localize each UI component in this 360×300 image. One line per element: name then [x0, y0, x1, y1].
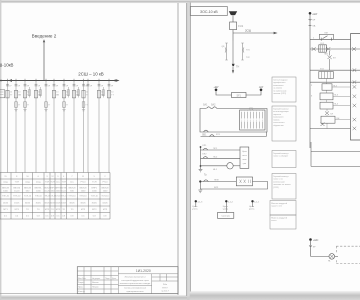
svg-text:ТО: ТО [62, 209, 65, 211]
svg-text:1: 1 [241, 111, 242, 113]
bottom paper edge right sheet [190, 291, 360, 300]
svg-text:электрооборудование цеха: электрооборудование цеха [121, 280, 149, 282]
bottom paper edge left sheet [0, 295, 187, 300]
svg-text:РП-4: РП-4 [103, 182, 109, 184]
feeder bay F10 [87, 79, 93, 173]
svg-text:Изм Лист: Изм Лист [78, 278, 86, 280]
svg-text:вгнал: вгнал [271, 220, 277, 222]
svg-text:ТО: ТО [71, 209, 74, 211]
svg-text:однофазного: однофазного [273, 81, 286, 84]
insulation monitor box [236, 177, 252, 186]
description box D5 [270, 201, 296, 216]
svg-text:МТЗ: МТЗ [92, 209, 97, 211]
svg-text:сигнального: сигнального [273, 122, 285, 124]
svg-text:10-20: 10-20 [44, 190, 50, 192]
fuse FU1 [230, 22, 244, 30]
svg-text:МТЗ: МТЗ [56, 209, 61, 211]
svg-text:FU1: FU1 [238, 24, 243, 28]
svg-text:лин.: лин. [56, 182, 61, 184]
svg-text:ВВЭ-М: ВВЭ-М [69, 188, 76, 190]
svg-text:10: 10 [10, 91, 12, 93]
rung 5 wire [310, 123, 351, 129]
relay box K3 [311, 93, 351, 100]
svg-text:SA1: SA1 [203, 104, 208, 107]
zone label box ЗОС-10 [190, 7, 227, 16]
rung 2 relay КL1 [310, 43, 360, 56]
svg-text:5: 5 [253, 120, 254, 122]
description box D2 [272, 106, 296, 141]
svg-text:8: 8 [262, 120, 263, 122]
right sheet [190, 3, 360, 293]
svg-text:ТПЛ-10: ТПЛ-10 [60, 196, 68, 198]
svg-text:Горячий замкнут: Горячий замкнут [273, 175, 288, 178]
svg-text:1: 1 [241, 120, 242, 122]
svg-text:ТО: ТО [51, 209, 54, 211]
svg-text:ТН: ТН [236, 65, 239, 68]
relay box КL [240, 147, 249, 168]
svg-text:ВВЭ-М: ВВЭ-М [24, 188, 31, 190]
contact row 1 [201, 145, 241, 150]
svg-text:Сигнал выдачи: Сигнал выдачи [273, 79, 287, 81]
svg-text:SA2: SA2 [211, 104, 216, 107]
svg-text:4-1-3: 4-1-3 [197, 201, 203, 203]
svg-text:SB1: SB1 [202, 134, 207, 136]
terminal X3 [249, 200, 260, 211]
feeder bay F4 [34, 79, 41, 173]
svg-text:10-20: 10-20 [61, 190, 67, 192]
svg-text:№ докум.: № докум. [92, 277, 101, 280]
svg-text:ТПЛ-10: ТПЛ-10 [68, 196, 76, 198]
svg-text:горячего: горячего [273, 114, 282, 116]
feeder bay F9 [82, 79, 89, 173]
svg-text:Н.контр: Н.контр [78, 291, 85, 293]
svg-text:ТО: ТО [37, 209, 40, 211]
svg-text:сигна: сигна [242, 155, 248, 157]
svg-text:-ШУ: -ШУ [259, 86, 264, 89]
feeder bay F8 [72, 79, 79, 173]
title block [77, 267, 178, 294]
bypass contact КМ [313, 32, 333, 40]
breaker contact [309, 241, 316, 257]
svg-text:гр.Э-17: гр.Э-17 [161, 291, 169, 293]
svg-text:8: 8 [262, 111, 263, 113]
svg-text:Горячий замкнут: Горячий замкнут [273, 107, 288, 110]
svg-text:КИЗ: КИЗ [214, 187, 219, 189]
ground signal rail [199, 166, 203, 172]
svg-text:ввод: ввод [3, 182, 8, 184]
svg-text:SF1: SF1 [237, 94, 242, 97]
switch SA1 contacts on top edge [203, 104, 240, 109]
svg-text:гашел в геб: гашел в геб [271, 206, 283, 208]
supply terminal +ШС [309, 238, 318, 242]
revision table texts [78, 277, 117, 293]
wire supply left [216, 91, 232, 95]
svg-text:ввод: ввод [25, 182, 30, 184]
rail wire [309, 39, 311, 148]
svg-text:300/5: 300/5 [69, 202, 75, 204]
feeder bay F7 [62, 79, 69, 173]
feeder bay F1 [6, 79, 13, 173]
svg-text:ТО: ТО [26, 209, 29, 211]
svg-text:2: 2 [244, 111, 245, 113]
contact row 2 [201, 154, 241, 159]
svg-text:300/5: 300/5 [25, 202, 31, 204]
signal rail [200, 146, 202, 167]
dashed enclosure (cropped) [336, 246, 360, 263]
terminal -ШУ [259, 86, 264, 91]
svg-text:2СШ – 10 кВ: 2СШ – 10 кВ [78, 72, 104, 77]
svg-text:(ОЗЗ): (ОЗЗ) [273, 187, 279, 189]
wire main [232, 41, 234, 64]
svg-text:МТЗ: МТЗ [15, 209, 20, 211]
contact X row [325, 111, 334, 115]
ground loop [198, 190, 202, 193]
svg-text:ТОЛ-10: ТОЛ-10 [24, 196, 32, 198]
svg-text:обрушения: обрушения [273, 125, 283, 127]
svg-text:Электроснабжение и: Электроснабжение и [124, 277, 146, 279]
svg-text:машиностроительного завода: машиностроительного завода [120, 283, 151, 285]
svg-text:контактирующих: контактирующих [273, 111, 288, 113]
busbar 2СШ 10кВ [0, 79, 120, 82]
svg-text:100/5: 100/5 [102, 202, 108, 204]
svg-text:принципиальная: принципиальная [127, 291, 145, 293]
feeder bay F6 [52, 79, 59, 173]
svg-text:учета: учета [223, 209, 229, 211]
svg-text:1СШ-10кВ: 1СШ-10кВ [0, 63, 14, 68]
svg-text:по кабельным: по кабельным [273, 90, 287, 92]
feeder bay F3 [23, 79, 30, 173]
svg-text:учета: учета [249, 209, 255, 211]
svg-text:ТПЛ-10: ТПЛ-10 [13, 196, 21, 198]
svg-text:линиям (ОЗЗ): линиям (ОЗЗ) [273, 93, 286, 95]
description box D6 [270, 215, 296, 229]
wire supply right [246, 91, 261, 95]
wire incoming feeder [43, 39, 45, 80]
svg-text:4-1-1: 4-1-1 [254, 201, 260, 203]
feeder bay F5 [44, 79, 51, 173]
feeder bay F2 [14, 79, 21, 173]
svg-text:4: 4 [250, 120, 251, 122]
svg-text:НГТУ: НГТУ [162, 287, 168, 289]
svg-text:ВНРп: ВНРп [92, 188, 97, 190]
feeder bay F11 [97, 79, 104, 173]
svg-text:100/5: 100/5 [61, 202, 67, 204]
svg-text:300/5: 300/5 [80, 202, 86, 204]
relay box K5 [321, 116, 351, 123]
loop return wire [200, 182, 267, 190]
svg-text:МТЗ: МТЗ [3, 209, 8, 211]
svg-text:+ШУ: +ШУ [213, 86, 219, 89]
svg-text:замыкания: замыкания [273, 117, 283, 119]
feeder bay F12 [107, 79, 114, 173]
svg-text:2СШ: 2СШ [245, 28, 252, 32]
svg-text:Цепи: Цепи [192, 206, 198, 208]
wire links between relay boxes [326, 79, 329, 129]
terminal X1 [192, 200, 203, 211]
device box crossing contacts [353, 68, 357, 130]
svg-text:6: 6 [256, 111, 257, 113]
meter box [218, 207, 234, 218]
rung 4 wire [310, 81, 360, 83]
svg-text:МТЗ: МТЗ [81, 209, 86, 211]
svg-text:Счетчик: Счетчик [222, 216, 230, 218]
right sheet left border [189, 3, 191, 292]
svg-text:4-1-2: 4-1-2 [228, 201, 234, 203]
svg-text:МТЗ: МТЗ [45, 209, 50, 211]
svg-text:Цепи: Цепи [223, 206, 229, 208]
resistor R1 [232, 93, 247, 98]
svg-text:300/5: 300/5 [36, 202, 42, 204]
svg-text:4: 4 [250, 111, 251, 113]
svg-text:ТСН: ТСН [62, 182, 67, 184]
measuring loop wire [199, 179, 236, 182]
terminal block XT1 [240, 108, 265, 130]
svg-text:ТОЛ-10: ТОЛ-10 [101, 196, 109, 198]
svg-text:МТЗ: МТЗ [103, 209, 108, 211]
svg-text:ТСН: ТСН [15, 182, 20, 184]
terminal block pins [242, 112, 263, 129]
svg-text:ТСН: ТСН [45, 182, 50, 184]
description box D3 [272, 151, 296, 168]
svg-text:10: 10 [56, 91, 58, 93]
left sheet [0, 3, 187, 296]
aux contact below rung2 [328, 51, 337, 63]
transformer TV symbol (filled) [232, 64, 240, 69]
svg-text:Монтаж модулей: Монтаж модулей [271, 202, 287, 205]
svg-text:10: 10 [18, 91, 20, 93]
svg-text:10-20: 10-20 [14, 190, 20, 192]
svg-text:ячеек с по: ячеек с по [273, 179, 283, 181]
sheet gap [187, 3, 190, 297]
svg-text:Иванов: Иванов [92, 282, 99, 284]
device box КРУ (cropped) [351, 34, 360, 140]
svg-text:ввод: ввод [36, 182, 41, 184]
svg-text:ТСН: ТСН [92, 182, 97, 184]
svg-text:Петров: Петров [92, 287, 98, 289]
svg-text:150/5: 150/5 [14, 202, 20, 204]
node 2СШ branch [233, 28, 278, 34]
svg-text:КМ: КМ [325, 32, 328, 34]
svg-text:ВВЭ-М: ВВЭ-М [13, 188, 20, 190]
svg-text:Горячий замкнут: Горячий замкнут [273, 152, 288, 155]
svg-text:Схема электрическая: Схема электрическая [124, 288, 147, 290]
svg-text:300/5: 300/5 [92, 202, 98, 204]
rung 3 connector row [310, 63, 360, 79]
left sheet frame bottom line [0, 293, 178, 295]
wire [232, 30, 234, 41]
svg-text:ВВ/TEL: ВВ/TEL [35, 188, 43, 190]
svg-text:Цепи: Цепи [242, 151, 247, 153]
terminal X2 [223, 200, 234, 211]
control cabinet outline [200, 109, 267, 133]
svg-text:3: 3 [247, 111, 248, 113]
svg-text:на землю: на землю [273, 88, 282, 90]
svg-text:7: 7 [259, 111, 260, 113]
transformer winding symbol (filled) [229, 11, 237, 15]
svg-text:ТПЛ-10: ТПЛ-10 [79, 196, 87, 198]
svg-text:замыкания: замыкания [273, 85, 283, 87]
svg-text:ции: ции [243, 163, 246, 165]
wire to load arrow [232, 67, 234, 74]
svg-text:2: 2 [244, 120, 245, 122]
svg-text:6: 6 [256, 120, 257, 122]
rung 1 wire [310, 38, 351, 40]
top paper edge [0, 0, 360, 3]
left sheet inner frame line [177, 3, 179, 295]
svg-text:+ШУ: +ШУ [312, 13, 318, 16]
svg-text:ячеек с измерит: ячеек с измерит [273, 156, 288, 158]
svg-text:ТЛК-10: ТЛК-10 [35, 196, 43, 198]
svg-text:Пров.: Пров. [78, 287, 83, 289]
svg-text:+ШС: +ШС [313, 239, 319, 242]
svg-text:7: 7 [259, 120, 260, 122]
svg-text:10: 10 [111, 91, 113, 93]
svg-text:ТСН: ТСН [50, 182, 55, 184]
supply terminal +ШУ2 [309, 12, 318, 16]
table cell texts [2, 176, 109, 218]
svg-text:ВВЭ-М: ВВЭ-М [2, 188, 9, 190]
wire row КЛ [201, 132, 267, 137]
svg-text:ВВ/TEL: ВВ/TEL [60, 188, 68, 190]
svg-text:3: 3 [247, 120, 248, 122]
svg-text:линиями на землю: линиями на землю [273, 184, 291, 186]
svg-text:Подп: Подп [105, 278, 110, 280]
svg-text:ВВЭ-М: ВВЭ-М [102, 188, 109, 190]
svg-text:кабельными: кабельными [273, 181, 284, 183]
wire [232, 15, 234, 22]
svg-text:Намена модулей: Намена модулей [271, 216, 287, 219]
svg-text:ПКИ: ПКИ [214, 179, 219, 181]
relay box K4 [320, 102, 351, 109]
left edge equipment box [0, 90, 5, 98]
left paper edge [0, 0, 1, 300]
lamp row 3 [201, 163, 241, 171]
load summary table [0, 173, 110, 220]
disconnector branch right [241, 43, 250, 60]
svg-text:Введение 2: Введение 2 [32, 33, 57, 38]
left sheet right edge [186, 3, 188, 296]
svg-text:1И1-2020: 1И1-2020 [136, 269, 151, 273]
svg-text:повель: повель [273, 119, 280, 121]
title block description texts [120, 277, 170, 293]
svg-text:РП-4: РП-4 [81, 182, 87, 184]
svg-text:лин.: лин. [70, 182, 75, 184]
svg-text:10: 10 [86, 91, 88, 93]
terminal +ШУ [213, 86, 219, 91]
svg-text:Цепи: Цепи [249, 206, 255, 208]
svg-text:ТЛК-10: ТЛК-10 [2, 196, 10, 198]
svg-text:Разраб.: Разраб. [78, 282, 85, 284]
relay box K2 [311, 84, 351, 90]
return conductor loop [311, 142, 360, 166]
lamp HL wire [311, 254, 339, 263]
disconnector branch left [222, 43, 228, 60]
description box D4 [272, 174, 296, 200]
switch SB1 contact on bottom edge [202, 130, 208, 136]
svg-text:ТОЛ-10: ТОЛ-10 [91, 196, 99, 198]
svg-text:ЗОС-10 кВ: ЗОС-10 кВ [200, 10, 218, 14]
svg-text:ВВЭ-М: ВВЭ-М [80, 188, 87, 190]
breaker SF contacts on rail [309, 15, 316, 40]
svg-text:5: 5 [253, 111, 254, 113]
svg-text:150/5: 150/5 [3, 202, 9, 204]
description box D1 [272, 77, 296, 102]
svg-text:учета: учета [192, 209, 198, 211]
